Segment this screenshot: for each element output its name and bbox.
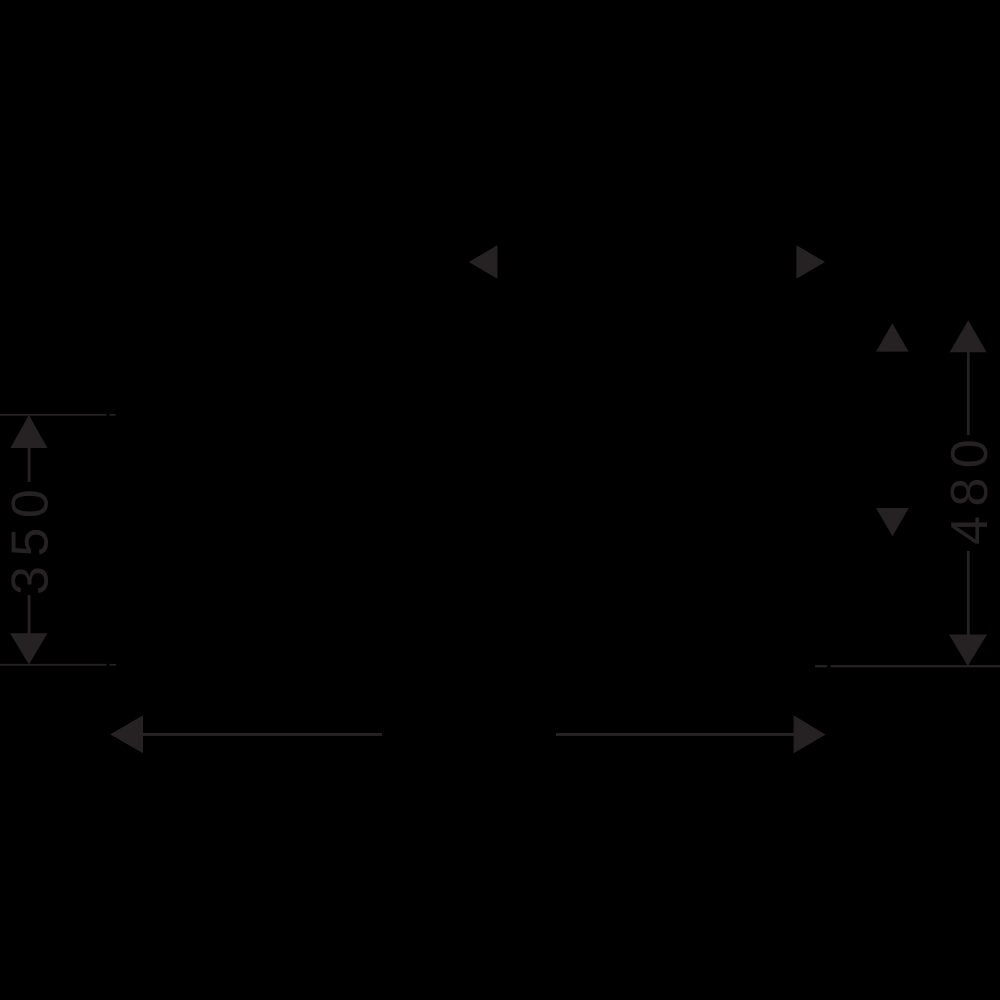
height dimension 480: bottom extension line (831, 665, 1000, 667)
height dimension 480: bottom arrowhead (949, 635, 987, 667)
height dimension 350: top arrowhead (10, 415, 47, 448)
bottom width dimension: left arrowhead (110, 715, 143, 753)
top width dimension: right arrowhead (796, 245, 825, 279)
height dimension 350: lower dimension line (28, 595, 31, 634)
svg-text:350: 350 (1, 480, 59, 595)
bottom width dimension: right arrowhead (794, 715, 826, 753)
height dimension 480: upper dimension line (967, 352, 970, 435)
top width dimension: left arrowhead (469, 245, 498, 279)
height dimension 480: lower dimension line (967, 551, 970, 635)
height dimension 350: top extension line (0, 414, 107, 416)
height dimension 350: bottom extension line (0, 664, 107, 666)
height dimension 480: bottom extension line dash (815, 665, 827, 667)
height dimension 350: top extension line dash (110, 414, 116, 416)
height dimension 350: bottom extension line dash (110, 664, 117, 666)
svg-text:480: 480 (941, 430, 999, 545)
height dimension 350: bottom arrowhead (10, 633, 47, 664)
height dimension 480: top arrowhead (950, 320, 987, 352)
middle depth dimension: down arrowhead (876, 508, 909, 536)
bottom width dimension: left dimension line (143, 733, 382, 736)
height dimension 350: upper dimension line (28, 448, 31, 482)
bottom width dimension: right dimension line (556, 733, 794, 736)
middle depth dimension: up arrowhead (876, 323, 909, 351)
